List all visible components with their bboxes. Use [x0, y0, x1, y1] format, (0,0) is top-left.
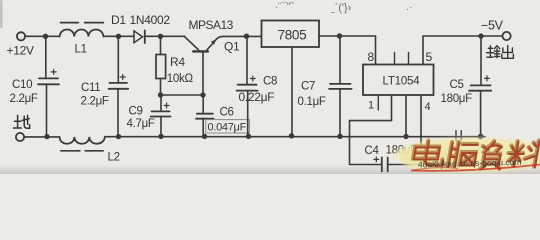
capacitor C10 lead bottom — [46, 84, 48, 136]
node R4 bottom — [158, 92, 163, 97]
node C5 bottom — [478, 134, 484, 140]
capacitor C11 lead top — [117, 36, 119, 82]
node pin3 gnd — [403, 134, 408, 139]
L1 core dashes — [61, 22, 104, 24]
inductor L1 — [60, 30, 104, 37]
transistor Q1 emitter — [207, 36, 223, 50]
svg-text:180μF: 180μF — [441, 93, 473, 105]
paper background — [0, 0, 540, 174]
ground terminal bottom left — [16, 133, 24, 141]
C8 plus sign — [250, 76, 255, 81]
svg-text:4: 4 — [425, 101, 431, 113]
wire input to L1 — [25, 35, 59, 37]
capacitor C6 lead top — [202, 95, 204, 113]
svg-text:L2: L2 — [108, 151, 120, 163]
capacitor C9 lead bottom — [160, 117, 162, 137]
svg-text:4.7μF: 4.7μF — [127, 118, 155, 130]
C4 plus sign — [374, 157, 379, 162]
regulator U1 7805 box — [262, 21, 320, 48]
node R4 top — [158, 34, 163, 39]
C6 value frame — [206, 120, 250, 133]
svg-text:C4: C4 — [365, 145, 380, 157]
capacitor C6 plates — [196, 114, 214, 119]
capacitor C8 lead top — [246, 36, 248, 84]
node 7805 gnd — [289, 133, 294, 138]
wire down to LT1054 pin 8 — [375, 36, 377, 65]
diode D1 1N4002 — [134, 31, 143, 43]
capacitor C11 plates — [109, 83, 129, 89]
svg-text:L1: L1 — [75, 44, 87, 56]
watermark red swoosh — [411, 165, 540, 171]
node C11 bottom — [116, 134, 121, 139]
svg-text:5: 5 — [426, 50, 433, 64]
capacitor C4 plates — [382, 157, 388, 171]
node C5 top — [478, 33, 483, 38]
wire L1 to D1 — [103, 35, 134, 37]
transistor Q1 MPSA13: collector — [185, 37, 199, 51]
L2 core dashes — [61, 150, 103, 152]
svg-text:2.2μF: 2.2μF — [10, 93, 38, 105]
node C6 bottom — [202, 134, 207, 139]
svg-text:C6: C6 — [220, 106, 234, 118]
inductor L2 — [60, 137, 105, 144]
capacitor C7 lead top — [339, 36, 341, 83]
LT1054 pin 2 wire to C4 left — [350, 95, 392, 165]
svg-text:·¨¯"˜: ·¨¯"˜ — [275, 0, 295, 13]
svg-text:+12V: +12V — [7, 44, 34, 58]
node C7 top — [337, 33, 342, 38]
svg-text:R4: R4 — [170, 55, 185, 69]
scan smudge left edge — [0, 0, 3, 28]
C9 plus sign — [164, 103, 169, 108]
IC U2 LT1054 box — [363, 65, 434, 96]
unknown tick marks on rail — [456, 131, 461, 142]
svg-text:2.2μF: 2.2μF — [81, 95, 109, 107]
C10 plus sign — [51, 69, 56, 74]
svg-text:C5: C5 — [450, 79, 464, 91]
LT1054 pin 5 wire up and to output — [423, 36, 502, 65]
svg-text:C9: C9 — [129, 106, 143, 118]
LT1054 top pin stub b — [408, 53, 410, 65]
capacitor C7 lead bottom — [339, 89, 341, 136]
capacitor C10 plates — [38, 78, 59, 84]
node C10 top — [43, 34, 48, 39]
C5 plus sign — [485, 76, 490, 81]
C11 plus sign — [120, 75, 125, 80]
svg-text:0.22μF: 0.22μF — [239, 90, 275, 104]
output terminal -5V — [503, 32, 511, 40]
input terminal +12V — [17, 32, 25, 40]
svg-text:ˍˊ(′}›: ˍˊ(′}› — [331, 2, 352, 15]
svg-text:․·: ․· — [406, 2, 412, 13]
node C8 top — [244, 34, 249, 39]
svg-text:D1: D1 — [111, 13, 126, 27]
svg-text:0.1μF: 0.1μF — [298, 96, 326, 108]
watermark big characters — [411, 141, 540, 170]
base node wire — [161, 94, 204, 96]
node C7 bottom — [337, 134, 342, 139]
svg-text:C7: C7 — [301, 81, 315, 93]
wire gnd terminal to L2 — [24, 136, 59, 138]
capacitor C8 plates — [237, 85, 258, 91]
svg-text:LT1054: LT1054 — [383, 76, 421, 88]
capacitor C5 lead bottom — [480, 91, 482, 137]
resistor R4 body — [156, 55, 166, 79]
transistor Q1 emitter arrow — [211, 39, 217, 45]
wire 7805 output to pin8 corner — [319, 35, 376, 37]
watermark highlight blob — [395, 138, 540, 172]
svg-text:Q1: Q1 — [224, 39, 240, 53]
wire D1 to Q1 collector bend — [145, 35, 185, 37]
capacitor C9 plates — [151, 111, 171, 116]
wire C4 right to LT1054 pin 4 — [388, 95, 421, 165]
wire emitter to 7805 input — [223, 35, 262, 37]
node base C6 — [200, 92, 205, 97]
resistor R4 lead bottom — [160, 79, 162, 96]
capacitor C8 lead bottom — [247, 91, 249, 137]
capacitor C10 lead top — [45, 36, 47, 78]
node C10 bottom — [44, 134, 49, 139]
node C11 top — [116, 34, 121, 39]
svg-text:0.047μF: 0.047μF — [208, 122, 247, 134]
transistor Q1 base lead down — [202, 51, 204, 95]
capacitor C6 lead bottom — [202, 119, 204, 137]
svg-text:C11: C11 — [81, 82, 100, 94]
svg-text:MPSA13: MPSA13 — [189, 18, 234, 32]
node C9 bottom — [158, 134, 163, 139]
label ground (Chinese) — [14, 115, 30, 128]
label output (Chinese) — [487, 46, 514, 59]
capacitor C9 lead top — [160, 95, 162, 111]
scan shadow bottom edge — [0, 164, 540, 174]
svg-text:C8: C8 — [263, 76, 277, 88]
svg-text:1: 1 — [368, 99, 374, 111]
LT1054 top pin stub a — [394, 53, 396, 65]
resistor R4 lead top — [160, 36, 162, 54]
svg-text:8: 8 — [368, 50, 375, 64]
capacitor C7 plates — [329, 84, 352, 89]
transistor Q1 base bar — [193, 50, 208, 52]
bottom rail — [105, 136, 485, 138]
svg-text:10kΩ: 10kΩ — [167, 73, 194, 85]
capacitor C5 lead top — [480, 36, 482, 85]
svg-text:−5V: −5V — [481, 18, 504, 32]
regulator 7805 ground lead — [291, 47, 293, 136]
capacitor C5 plates — [469, 85, 491, 90]
LT1054 bottom pin 1 stub — [377, 95, 379, 110]
svg-text:7805: 7805 — [278, 27, 307, 42]
node C8 bottom — [246, 134, 251, 139]
svg-text:1N4002: 1N4002 — [130, 13, 171, 27]
svg-text:C10: C10 — [12, 79, 32, 91]
LT1054 pin 3 ground lead — [405, 95, 407, 137]
faint bleed-through marks top — [275, 0, 412, 14]
capacitor C11 lead bottom — [117, 89, 119, 137]
